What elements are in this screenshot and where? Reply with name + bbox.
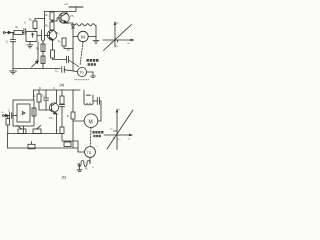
wire left loop b bbox=[7, 134, 9, 149]
node block output bbox=[41, 35, 42, 36]
potentiometer RP2 bbox=[33, 126, 41, 134]
input terminal bbox=[3, 31, 14, 34]
diode VD bbox=[72, 23, 75, 52]
svg-text:C: C bbox=[8, 109, 10, 113]
svg-text:C: C bbox=[24, 21, 26, 25]
svg-text:O: O bbox=[113, 136, 115, 140]
chinese label b row2 bbox=[93, 135, 101, 137]
svg-text:R: R bbox=[39, 87, 41, 90]
resistor R5 divider top bbox=[50, 11, 54, 20]
svg-text:R₁: R₁ bbox=[16, 25, 19, 29]
svg-text:u₀: u₀ bbox=[116, 22, 119, 25]
resistor R8a bbox=[51, 50, 55, 58]
resistor Rf wavy bbox=[75, 24, 96, 26]
wire base b bbox=[39, 109, 46, 111]
capacitor C2 bbox=[44, 90, 49, 110]
hatch under tacho bbox=[75, 79, 90, 81]
tachogenerator TG b bbox=[85, 147, 96, 158]
ground left a bbox=[10, 69, 17, 75]
resistor Rfb bbox=[32, 108, 36, 116]
capacitor C4 bbox=[66, 56, 68, 63]
svg-text:VT₃: VT₃ bbox=[49, 116, 53, 120]
wire divider to base bbox=[52, 18, 61, 21]
graph b vertical axis bbox=[116, 110, 117, 150]
svg-text:VT₂: VT₂ bbox=[70, 14, 74, 18]
potentiometer RP3 bbox=[64, 141, 71, 147]
leader dashes to tacho bbox=[70, 61, 79, 67]
wire top rail bbox=[45, 11, 77, 13]
chinese label a row2 bbox=[88, 63, 96, 65]
node divider mid bbox=[51, 20, 52, 21]
resistor R2 bbox=[33, 19, 45, 32]
wire jog to lower rail bbox=[72, 141, 74, 148]
wire wave drop bbox=[95, 26, 97, 40]
op-amp block A bbox=[26, 31, 42, 41]
ground winding bbox=[77, 170, 82, 172]
wire top rail b bbox=[34, 89, 81, 91]
svg-text:(a): (a) bbox=[60, 83, 65, 87]
wire diode drop join bbox=[72, 52, 74, 71]
input terminal b bbox=[3, 114, 10, 116]
svg-text:R: R bbox=[34, 95, 36, 99]
wire rail jog bbox=[62, 134, 78, 142]
wire loop to rail bbox=[33, 90, 35, 100]
svg-text:VT₁: VT₁ bbox=[55, 31, 59, 35]
svg-text:U₂₀: U₂₀ bbox=[118, 139, 121, 141]
capacitor C0 bbox=[62, 67, 78, 73]
wire bottom rail a bbox=[13, 68, 60, 70]
mechanical coupling dashed b bbox=[89, 128, 92, 147]
wire lower bottom rail b bbox=[8, 147, 79, 149]
capacitor field bbox=[93, 98, 101, 122]
svg-text:U₀: U₀ bbox=[115, 44, 118, 47]
feedback loop rect bbox=[13, 100, 34, 126]
tachogenerator TG a bbox=[77, 67, 95, 77]
resistor R7 bbox=[37, 90, 41, 110]
svg-text:R₅: R₅ bbox=[46, 13, 49, 17]
transistor VT2 bbox=[59, 12, 69, 24]
svg-text:(b): (b) bbox=[62, 176, 67, 180]
wire upper bottom rail b bbox=[8, 133, 63, 135]
capacitor C3 bbox=[60, 105, 65, 127]
potentiometer RP1 bbox=[17, 126, 26, 134]
chinese label a row1 bbox=[86, 59, 98, 62]
ground under block bbox=[27, 41, 33, 48]
resistor R7a bbox=[62, 38, 73, 49]
resistor R4 bbox=[41, 56, 45, 64]
wire tacho left bbox=[78, 141, 84, 152]
power supply bar +U bbox=[69, 7, 83, 11]
wire winding left leg bbox=[79, 164, 81, 170]
svg-text:u₂: u₂ bbox=[118, 108, 120, 111]
graph b transfer line bbox=[107, 110, 133, 149]
svg-text:TG: TG bbox=[87, 151, 92, 155]
node motor left bbox=[72, 36, 73, 37]
svg-text:TG: TG bbox=[79, 71, 84, 75]
motor M bbox=[73, 31, 96, 41]
node joints a bbox=[13, 18, 74, 49]
resistor R9 bbox=[71, 90, 75, 141]
potentiometer RP4 bbox=[28, 142, 35, 149]
svg-text:U₂₀: U₂₀ bbox=[110, 129, 113, 131]
svg-text:R₂: R₂ bbox=[29, 18, 32, 22]
resistor R1 bbox=[14, 31, 24, 35]
svg-text:M: M bbox=[89, 120, 93, 126]
svg-text:C: C bbox=[53, 87, 55, 90]
wire input return drop bbox=[12, 33, 14, 69]
field winding bbox=[84, 90, 93, 105]
wire vertical bus A bbox=[41, 30, 43, 40]
svg-text:R₂: R₂ bbox=[85, 168, 88, 171]
transistor VT1 bbox=[45, 30, 57, 40]
svg-text:+U: +U bbox=[64, 2, 68, 6]
graph a transfer line bbox=[104, 25, 132, 51]
winding tacho bbox=[78, 161, 90, 167]
resistor R8 bbox=[60, 90, 64, 104]
resistor R10 bbox=[60, 127, 64, 134]
wire VT2 emitter to diode bbox=[67, 22, 73, 24]
svg-text:M: M bbox=[81, 35, 85, 40]
wire merged bus bbox=[42, 40, 45, 69]
amplifier block b bbox=[17, 104, 30, 122]
resistor Rin shunt bbox=[6, 116, 10, 134]
graph b horizontal axis bbox=[104, 134, 132, 135]
potentiometer wiper arrow bbox=[32, 61, 38, 67]
wire VT1 emitter column bbox=[52, 40, 54, 50]
resistor R3 bbox=[41, 44, 45, 52]
wire vertical bus B bbox=[44, 12, 46, 41]
svg-text:VD: VD bbox=[67, 48, 71, 52]
capacitor Cb bbox=[10, 113, 17, 119]
wire to cap row bbox=[53, 58, 66, 60]
motor M b bbox=[84, 114, 101, 128]
chinese label b row1 bbox=[92, 131, 103, 134]
wire winding entry bbox=[89, 161, 91, 164]
capacitor C1 shunt bbox=[10, 40, 15, 42]
mechanical coupling dashed bbox=[80, 42, 83, 66]
graph a vertical axis bbox=[114, 22, 115, 47]
ground right of motor bbox=[93, 40, 99, 43]
svg-text:R₇: R₇ bbox=[58, 41, 61, 44]
wire motor feed bbox=[73, 120, 84, 122]
graph a horizontal axis bbox=[103, 39, 133, 40]
svg-text:O: O bbox=[111, 41, 113, 45]
svg-text:R₆: R₆ bbox=[46, 24, 49, 28]
capacitor C series bbox=[24, 29, 26, 35]
node rail joints bbox=[39, 90, 75, 111]
svg-text:C₁: C₁ bbox=[6, 40, 9, 44]
wire tacho bottom bbox=[89, 157, 91, 160]
svg-text:C₂: C₂ bbox=[42, 94, 45, 98]
wire block bottom bbox=[23, 126, 25, 134]
svg-text:R: R bbox=[67, 115, 69, 118]
graph b bracket label bbox=[110, 129, 121, 142]
wire feedback drop bbox=[37, 42, 39, 62]
graph a tick label bbox=[115, 40, 118, 47]
transistor VT3 bbox=[46, 90, 59, 134]
resistor R6 divider bottom bbox=[50, 20, 54, 31]
svg-text:R: R bbox=[56, 130, 58, 133]
